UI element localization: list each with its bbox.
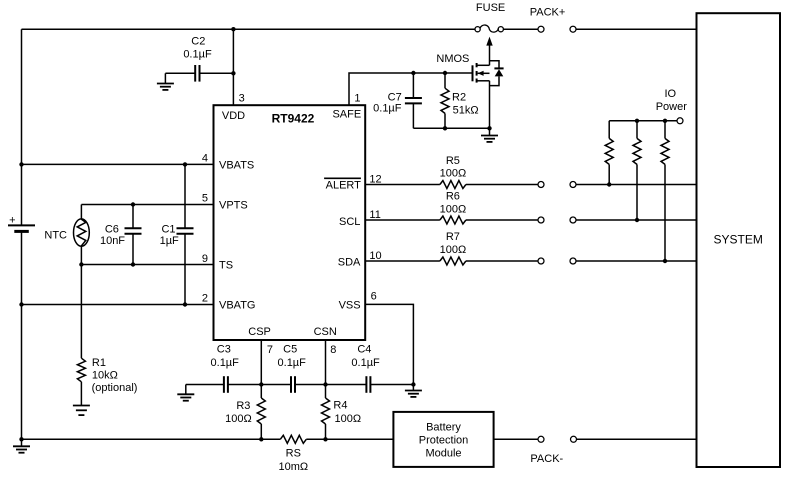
ground at NMOS source xyxy=(481,128,498,142)
svg-text:VSS: VSS xyxy=(339,300,361,312)
wire R1 to ground xyxy=(80,382,82,406)
pull-up 3 bottom lead xyxy=(664,164,666,261)
svg-text:10nF: 10nF xyxy=(100,235,125,247)
svg-text:4: 4 xyxy=(202,153,208,165)
svg-text:Battery: Battery xyxy=(426,422,461,434)
svg-text:CSN: CSN xyxy=(314,326,337,338)
svg-text:IO: IO xyxy=(664,88,676,100)
wire VBATS pin 4 row xyxy=(22,163,214,165)
svg-text:10mΩ: 10mΩ xyxy=(278,461,308,473)
resistor R3 top lead xyxy=(260,385,262,399)
resistor R2 51k xyxy=(441,88,449,113)
wire SDA pin 10 to R7 xyxy=(365,260,440,262)
svg-text:2: 2 xyxy=(202,293,208,305)
svg-text:NTC: NTC xyxy=(44,230,67,242)
svg-text:VDD: VDD xyxy=(222,110,245,122)
junction IO rail / pull-up 2 xyxy=(635,119,639,123)
svg-text:RS: RS xyxy=(286,448,301,460)
junction CSP / C3 / C5 / R3 xyxy=(259,382,263,386)
junction VPTS / C6 xyxy=(131,202,135,206)
terminal PACK+ left xyxy=(538,26,544,32)
terminal ALERT left xyxy=(538,182,544,188)
junction ALERT / pull-up 1 xyxy=(607,182,611,186)
wire CSP pin 7 vertical xyxy=(260,340,262,385)
svg-text:100Ω: 100Ω xyxy=(440,168,467,180)
junction R2 / ground net xyxy=(443,126,447,130)
wire ALERT pin 12 to R5 xyxy=(365,184,440,186)
svg-text:TS: TS xyxy=(219,260,233,272)
wire C2 left lead xyxy=(165,72,195,74)
arrow from NMOS drain to PACK+ rail xyxy=(486,37,492,46)
junction TS / NTC / R1 xyxy=(79,262,83,266)
block SYSTEM xyxy=(697,13,781,467)
terminal PACK- right xyxy=(571,436,577,442)
terminal SDA right xyxy=(570,258,576,264)
junction SCL / pull-up 2 xyxy=(635,218,639,222)
svg-text:+: + xyxy=(9,214,15,226)
svg-text:51kΩ: 51kΩ xyxy=(453,105,479,117)
svg-text:C1: C1 xyxy=(161,223,175,235)
svg-text:VBATG: VBATG xyxy=(219,300,255,312)
svg-text:CSP: CSP xyxy=(248,326,271,338)
svg-text:(optional): (optional) xyxy=(92,382,138,394)
junction SAFE / C7 xyxy=(411,71,415,75)
wire R7 to terminal xyxy=(466,260,538,262)
svg-text:Module: Module xyxy=(425,448,461,460)
svg-text:0.1µF: 0.1µF xyxy=(351,357,380,369)
svg-text:PACK-: PACK- xyxy=(530,453,563,465)
wire CSN pin 8 vertical xyxy=(325,340,327,385)
svg-text:100Ω: 100Ω xyxy=(225,413,252,425)
junction battery- rail / VBATG xyxy=(19,302,23,306)
wire R6 to terminal xyxy=(466,219,538,221)
junction CSN / C5 / C4 / R4 xyxy=(323,382,327,386)
svg-text:0.1µF: 0.1µF xyxy=(211,357,240,369)
terminal SCL left xyxy=(538,217,544,223)
svg-text:6: 6 xyxy=(371,291,377,303)
svg-text:0.1µF: 0.1µF xyxy=(183,49,212,61)
wire C3 to C5 xyxy=(228,384,291,386)
svg-text:11: 11 xyxy=(369,209,380,221)
battery BT1 xyxy=(8,225,35,231)
svg-text:C4: C4 xyxy=(357,344,371,356)
junction SAFE / R2 xyxy=(443,71,447,75)
wire VDD pin 3 vertical xyxy=(232,29,234,105)
junction VSS / C4 / ground xyxy=(411,382,415,386)
svg-text:VPTS: VPTS xyxy=(219,200,248,212)
svg-text:R6: R6 xyxy=(446,191,460,203)
terminal SCL right xyxy=(570,217,576,223)
svg-text:5: 5 xyxy=(202,193,208,205)
capacitor C3 0.1uF xyxy=(224,376,228,393)
junction battery+ rail / VBATS xyxy=(19,162,23,166)
svg-text:3: 3 xyxy=(239,92,245,104)
svg-text:NMOS: NMOS xyxy=(436,53,469,65)
svg-text:R3: R3 xyxy=(236,400,250,412)
junction R3 / RS left xyxy=(259,437,263,441)
svg-text:10kΩ: 10kΩ xyxy=(92,370,118,382)
ground at C2 xyxy=(157,73,174,90)
svg-text:12: 12 xyxy=(369,174,381,186)
resistor R4 top lead xyxy=(325,385,327,399)
pull-up resistor 2 xyxy=(633,138,641,164)
svg-text:0.1µF: 0.1µF xyxy=(278,357,307,369)
wire SCL pin 11 to R6 xyxy=(365,219,440,221)
svg-text:C3: C3 xyxy=(217,344,231,356)
svg-text:R2: R2 xyxy=(452,91,466,103)
svg-text:Protection: Protection xyxy=(419,435,469,447)
capacitor C5 0.1uF xyxy=(291,376,295,393)
resistor R5 100 xyxy=(440,181,466,189)
wire TS pin 9 row xyxy=(81,264,213,266)
svg-text:9: 9 xyxy=(202,253,208,265)
wire PACK+ top rail (battery+ to fuse) xyxy=(22,28,475,30)
wire C7/R2/NMOS source ground net xyxy=(413,127,489,129)
junction R4 / RS right xyxy=(323,437,327,441)
pull-up 2 bottom lead xyxy=(636,164,638,220)
svg-text:PACK+: PACK+ xyxy=(530,6,566,18)
wire C2 right lead xyxy=(200,72,234,74)
wire VBATG pin 2 row xyxy=(22,304,214,306)
body diode of NMOS xyxy=(490,61,504,86)
svg-text:100Ω: 100Ω xyxy=(335,413,362,425)
wire left rail battery- vertical xyxy=(21,231,23,439)
svg-text:100Ω: 100Ω xyxy=(440,244,467,256)
block Battery Protection Module xyxy=(393,412,493,467)
wire SAFE pin 1 to NMOS gate xyxy=(349,73,473,105)
wire ground to C3 xyxy=(186,384,224,386)
pull-up resistor leads 2 xyxy=(636,121,638,139)
junction TS / C6 xyxy=(131,262,135,266)
resistor RS 10m sense xyxy=(280,435,306,443)
svg-text:C5: C5 xyxy=(283,344,297,356)
svg-text:SAFE: SAFE xyxy=(332,109,361,121)
svg-text:C2: C2 xyxy=(191,36,205,48)
resistor R1 10k optional xyxy=(77,358,85,382)
resistor R2 top lead xyxy=(444,73,446,88)
svg-text:C6: C6 xyxy=(105,223,119,235)
svg-text:8: 8 xyxy=(330,344,336,356)
wire RS to Battery Protection Module xyxy=(306,438,393,440)
wire C4 to VSS xyxy=(370,384,413,386)
capacitor C7 0.1uF leads xyxy=(412,73,414,98)
svg-text:SYSTEM: SYSTEM xyxy=(714,233,763,247)
ground at C3 xyxy=(177,385,194,401)
junction VBATG / C1 xyxy=(183,302,187,306)
terminal SDA left xyxy=(538,258,544,264)
terminal PACK+ right xyxy=(570,26,576,32)
capacitor C6 10nF leads xyxy=(132,205,134,229)
svg-text:0.1µF: 0.1µF xyxy=(373,102,402,114)
wire module to PACK- terminal xyxy=(494,438,538,440)
wire IO power rail xyxy=(609,120,677,122)
wire ALERT to SYSTEM xyxy=(576,184,697,186)
resistor R6 100 xyxy=(440,216,466,224)
svg-text:7: 7 xyxy=(267,344,273,356)
junction battery- rail / bottom rail xyxy=(19,437,23,441)
svg-text:R1: R1 xyxy=(92,357,106,369)
wire fuse to PACK+ terminal xyxy=(504,28,539,30)
wire VSS pin 6 xyxy=(365,304,413,384)
ground at VSS xyxy=(405,385,422,397)
pull-up 1 bottom lead xyxy=(608,164,610,184)
resistor R7 100 xyxy=(440,257,466,265)
wire R5 to terminal xyxy=(466,184,538,186)
capacitor C1 1uF vertical leads xyxy=(184,164,186,228)
resistor R2 bottom lead xyxy=(444,113,446,128)
wire PACK- to SYSTEM xyxy=(576,438,696,440)
pull-up resistor leads 1 xyxy=(608,121,610,139)
svg-text:FUSE: FUSE xyxy=(476,2,505,14)
junction top rail / VDD xyxy=(231,27,235,31)
svg-text:Power: Power xyxy=(656,101,688,113)
wire left rail battery+ vertical xyxy=(21,29,23,225)
pull-up resistor 3 xyxy=(661,138,669,164)
wire VPTS pin 5 row xyxy=(81,204,213,206)
capacitor C2 0.1uF xyxy=(195,65,199,82)
svg-text:RT9422: RT9422 xyxy=(272,111,315,125)
resistor R4 100 xyxy=(322,398,330,424)
svg-text:R5: R5 xyxy=(446,155,460,167)
resistor R4 bottom lead xyxy=(325,424,327,439)
wire SDA to SYSTEM xyxy=(576,260,697,262)
svg-text:VBATS: VBATS xyxy=(219,160,254,172)
svg-text:1µF: 1µF xyxy=(160,235,179,247)
junction VBATS / C1 xyxy=(183,162,187,166)
IC U1 RT9422 body xyxy=(214,105,366,340)
fuse F1 xyxy=(475,25,503,32)
pull-up resistor leads 3 xyxy=(664,121,666,139)
ground at battery- xyxy=(13,439,30,452)
capacitor C1 1uF xyxy=(177,228,194,233)
pull-up resistor 1 xyxy=(605,138,613,164)
wire C5 to C4 xyxy=(295,384,366,386)
resistor R3 100 xyxy=(257,398,265,424)
svg-text:100Ω: 100Ω xyxy=(440,204,467,216)
wire TS to R1 xyxy=(80,265,82,359)
svg-text:R4: R4 xyxy=(333,400,347,412)
terminal ALERT right xyxy=(570,182,576,188)
junction NMOS source / ground net xyxy=(487,126,491,130)
junction C2 / VDD xyxy=(231,71,235,75)
wire PACK+ to SYSTEM xyxy=(576,28,697,30)
svg-text:SCL: SCL xyxy=(339,216,360,228)
ground at R1 xyxy=(73,406,90,416)
svg-text:SDA: SDA xyxy=(338,256,361,268)
capacitor C6 10nF xyxy=(125,228,142,233)
resistor R3 bottom lead xyxy=(260,424,262,439)
junction SDA / pull-up 3 xyxy=(663,259,667,263)
thermistor NTC xyxy=(74,205,90,265)
svg-text:1: 1 xyxy=(354,92,360,104)
junction IO rail / pull-up 3 xyxy=(663,119,667,123)
terminal IO Power xyxy=(677,118,683,124)
transistor Q1 NMOS xyxy=(473,45,490,128)
wire bottom rail battery- to RS xyxy=(22,438,281,440)
capacitor C7 0.1uF xyxy=(405,98,422,103)
wire SCL to SYSTEM xyxy=(576,219,697,221)
terminal PACK- left xyxy=(538,436,544,442)
capacitor C4 0.1uF xyxy=(366,376,370,393)
svg-text:R7: R7 xyxy=(446,231,460,243)
svg-text:ALERT: ALERT xyxy=(326,179,362,191)
